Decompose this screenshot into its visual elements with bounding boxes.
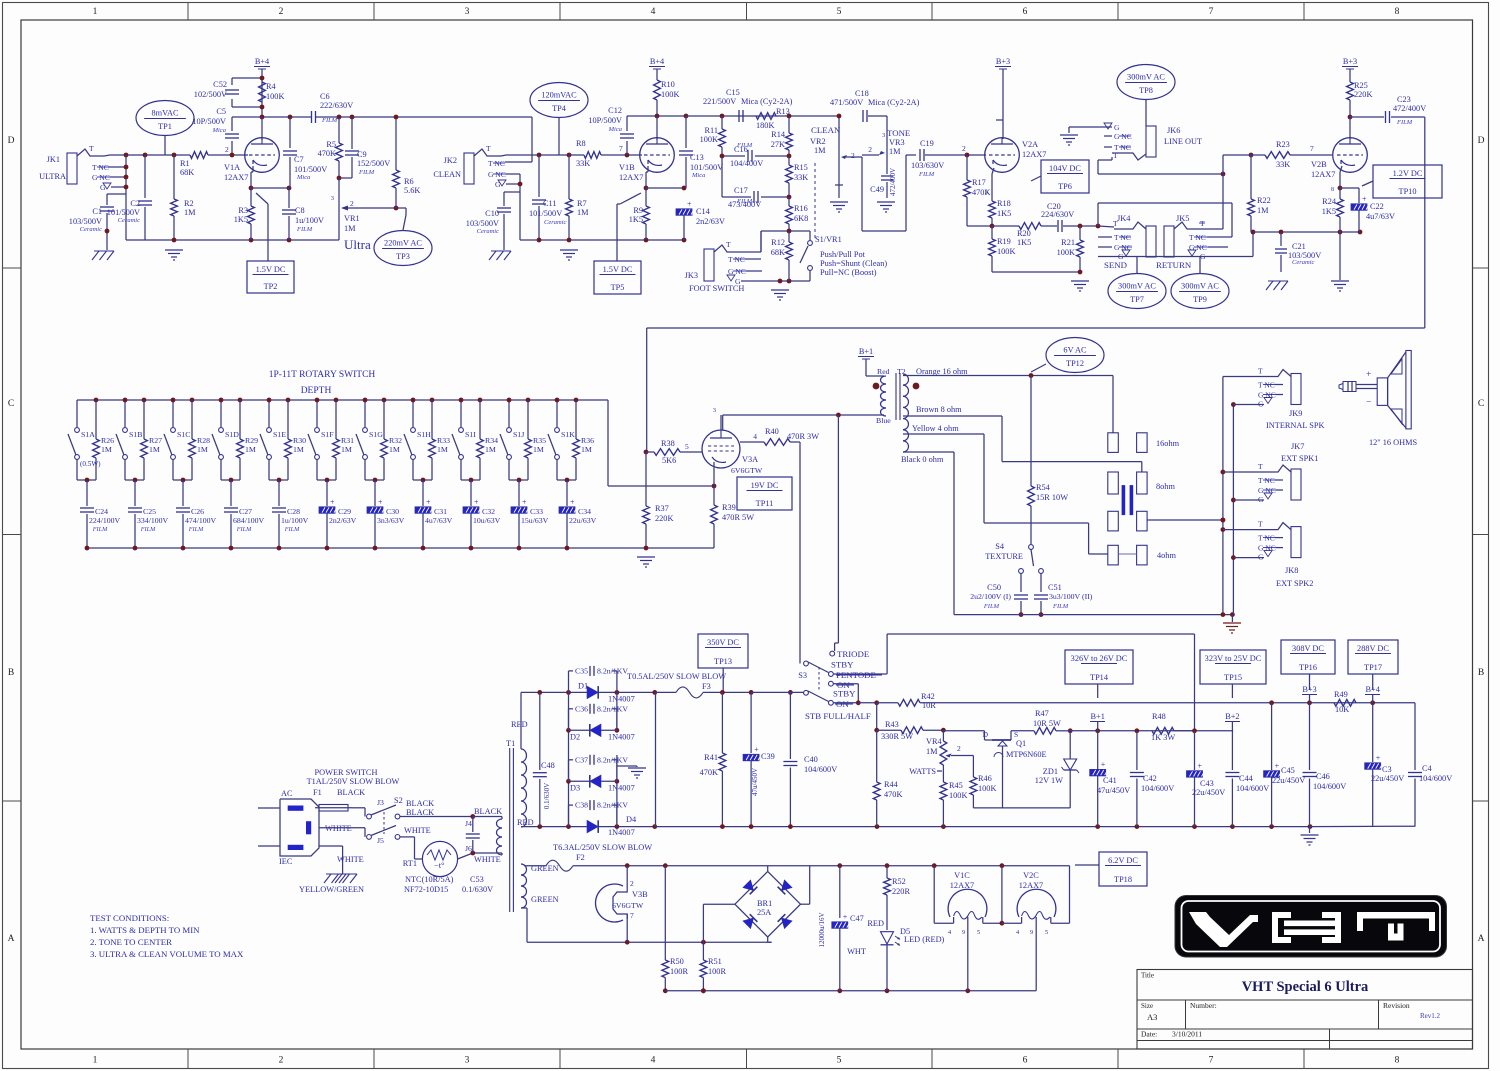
svg-text:R10: R10	[661, 80, 675, 89]
svg-text:R19: R19	[997, 237, 1011, 246]
wire heater ground bus	[665, 988, 1036, 993]
svg-text:B+1: B+1	[859, 347, 873, 356]
thermistor RT1	[400, 837, 458, 894]
svg-text:V1C: V1C	[954, 871, 970, 880]
svg-text:R23: R23	[1276, 140, 1290, 149]
shorting bars 8 ohm	[1122, 485, 1134, 515]
resistor R28	[189, 398, 210, 480]
capacitor C6	[312, 92, 354, 124]
svg-text:12AX7: 12AX7	[224, 173, 248, 182]
svg-text:2: 2	[630, 879, 634, 888]
wire plate node V2B	[1348, 115, 1384, 139]
svg-text:1: 1	[93, 1056, 98, 1066]
switch blade cathode bypass	[256, 193, 268, 261]
capacitor C48	[533, 692, 555, 826]
svg-text:C44: C44	[1239, 774, 1254, 783]
svg-text:T NC: T NC	[1189, 233, 1206, 242]
svg-text:224/100V: 224/100V	[89, 516, 121, 525]
resistor R41	[700, 692, 726, 826]
potentiometer VR3 tone	[868, 128, 910, 172]
wire rectifier right rail upper	[615, 692, 620, 732]
svg-text:Ceramic: Ceramic	[544, 219, 567, 226]
capacitor C49	[870, 168, 897, 198]
jack JK2	[433, 144, 520, 189]
svg-text:Revision: Revision	[1383, 1001, 1410, 1010]
resistor R50	[662, 866, 689, 993]
resistor R47	[1011, 709, 1069, 734]
resistor R16	[786, 197, 809, 231]
svg-text:C23: C23	[1397, 95, 1411, 104]
svg-text:B+4: B+4	[255, 57, 270, 66]
svg-text:C40: C40	[804, 755, 818, 764]
svg-text:104/600V: 104/600V	[1141, 784, 1174, 793]
svg-text:JK3: JK3	[685, 271, 698, 280]
capacitor C9	[345, 117, 390, 178]
svg-text:C4: C4	[1422, 764, 1433, 773]
svg-text:EXT SPK2: EXT SPK2	[1276, 579, 1313, 588]
svg-text:EXT SPK1: EXT SPK1	[1281, 454, 1318, 463]
capacitor C7	[283, 117, 327, 188]
svg-text:3n3/63V: 3n3/63V	[377, 516, 405, 525]
svg-text:8: 8	[1331, 187, 1334, 193]
svg-text:C3: C3	[1382, 765, 1392, 774]
svg-text:C47: C47	[850, 914, 864, 923]
resistor R32	[381, 398, 402, 480]
svg-text:220mV AC: 220mV AC	[384, 239, 422, 248]
impedance block 16 ohm	[1108, 433, 1180, 453]
svg-text:1N4007: 1N4007	[608, 732, 635, 741]
capacitor C50	[970, 574, 1028, 617]
label RETURN	[1156, 260, 1192, 270]
svg-text:FOOT SWITCH: FOOT SWITCH	[689, 284, 744, 293]
wire cathode V2B	[1331, 166, 1342, 193]
svg-text:12V 1W: 12V 1W	[1035, 776, 1063, 785]
svg-text:5: 5	[837, 1056, 842, 1066]
svg-text:4: 4	[651, 1056, 656, 1066]
svg-text:1K5: 1K5	[629, 215, 643, 224]
svg-text:C33: C33	[530, 507, 543, 516]
svg-text:103/630V: 103/630V	[911, 161, 944, 170]
svg-text:0.1/630V: 0.1/630V	[462, 885, 493, 894]
svg-text:TP10: TP10	[1399, 187, 1417, 196]
test point TP4	[530, 83, 588, 156]
power B+1 node (supply)	[1090, 712, 1105, 731]
wire V3B pins	[626, 866, 628, 943]
svg-text:1M: 1M	[926, 747, 938, 756]
svg-text:2u2/100V (I): 2u2/100V (I)	[970, 592, 1011, 601]
svg-text:R47: R47	[1035, 709, 1049, 718]
svg-text:68K: 68K	[180, 168, 194, 177]
test point TP2	[247, 261, 294, 293]
svg-text:1.5V DC: 1.5V DC	[256, 265, 286, 274]
svg-text:104/400V: 104/400V	[730, 159, 763, 168]
diode D2	[569, 729, 617, 731]
resistor R19	[989, 226, 1016, 272]
svg-text:S1A: S1A	[81, 430, 95, 439]
wire texture ground bus	[954, 612, 1235, 617]
ground symbol foot switch	[771, 290, 789, 300]
LED D5	[847, 919, 944, 991]
svg-text:R48: R48	[1152, 712, 1166, 721]
svg-text:6V AC: 6V AC	[1063, 346, 1087, 355]
svg-text:LINE OUT: LINE OUT	[1164, 137, 1202, 146]
svg-text:+: +	[1362, 195, 1367, 204]
svg-text:T NC: T NC	[1114, 233, 1131, 242]
svg-text:Black 0 ohm: Black 0 ohm	[901, 455, 944, 464]
svg-text:TP16: TP16	[1299, 663, 1317, 672]
svg-text:C50: C50	[987, 583, 1001, 592]
svg-text:JK6: JK6	[1167, 126, 1180, 135]
power B+3 node (supply)	[1302, 685, 1317, 703]
ground symbol JK6	[1060, 127, 1078, 145]
svg-text:12AX7: 12AX7	[1022, 150, 1046, 159]
svg-text:C26: C26	[191, 507, 204, 516]
wire cell join G	[365, 478, 384, 483]
wire heater bus top	[625, 863, 1070, 868]
svg-text:TONE: TONE	[887, 128, 910, 138]
capacitor C33	[511, 480, 549, 550]
jack JK6 line out	[1069, 123, 1202, 160]
wire OT primary bottom to plate	[723, 413, 884, 430]
svg-text:R16: R16	[794, 204, 808, 213]
potentiometer VR1	[331, 178, 360, 235]
capacitor C11	[529, 155, 567, 240]
svg-text:7: 7	[1310, 144, 1314, 153]
fuse F2	[524, 843, 652, 873]
resistor R1	[180, 152, 208, 177]
label red bottom	[517, 818, 534, 827]
svg-text:R24: R24	[1322, 197, 1337, 206]
svg-text:+: +	[843, 913, 848, 922]
svg-text:3: 3	[985, 189, 988, 196]
power B+4 node (supply)	[1365, 685, 1381, 703]
svg-text:S3: S3	[798, 671, 807, 680]
test point TP1	[136, 101, 194, 156]
svg-text:220K: 220K	[1354, 90, 1372, 99]
svg-text:472/400V: 472/400V	[1393, 104, 1426, 113]
svg-text:1K5: 1K5	[234, 215, 248, 224]
svg-text:2: 2	[868, 145, 872, 154]
svg-text:TEST CONDITIONS:: TEST CONDITIONS:	[90, 913, 169, 923]
svg-text:C42: C42	[1143, 774, 1157, 783]
svg-text:POWER SWITCH: POWER SWITCH	[315, 768, 378, 777]
ground symbol PSU	[1301, 826, 1319, 845]
svg-text:16ohm: 16ohm	[1156, 439, 1180, 448]
svg-text:+: +	[1366, 370, 1371, 380]
svg-text:R17: R17	[972, 178, 986, 187]
wire V1B plate to tone stack	[686, 114, 836, 119]
svg-text:R11: R11	[704, 126, 718, 135]
svg-text:1: 1	[93, 7, 98, 17]
svg-text:D1: D1	[578, 681, 588, 690]
svg-text:V3B: V3B	[632, 890, 648, 899]
svg-text:R15: R15	[794, 163, 808, 172]
chassis ground under C10	[489, 251, 511, 260]
chassis ground C21	[1266, 281, 1288, 290]
capacitor C15	[703, 88, 793, 122]
switch S1H	[404, 398, 431, 480]
svg-text:FILM: FILM	[140, 526, 156, 533]
svg-text:T1AL/250V SLOW BLOW: T1AL/250V SLOW BLOW	[307, 777, 400, 786]
wire rectifier left rail	[566, 692, 571, 826]
svg-text:102/500V: 102/500V	[194, 90, 227, 99]
resistor R46	[970, 756, 996, 808]
svg-text:Ceramic: Ceramic	[1292, 259, 1315, 266]
switch S1K	[548, 398, 575, 480]
svg-text:5: 5	[977, 929, 980, 936]
svg-text:3u3/100V (II): 3u3/100V (II)	[1049, 592, 1093, 601]
svg-text:C17: C17	[734, 186, 748, 195]
phase dot secondary	[913, 383, 920, 390]
resistor R10	[654, 80, 680, 116]
wire foot switch ground	[741, 279, 810, 284]
svg-text:R39: R39	[722, 503, 736, 512]
svg-text:S1I: S1I	[465, 430, 476, 439]
switch S1E	[260, 398, 286, 480]
svg-text:C39: C39	[761, 752, 775, 761]
svg-text:B+4: B+4	[650, 57, 665, 66]
svg-text:WHITE: WHITE	[337, 855, 364, 864]
svg-text:1M: 1M	[197, 445, 208, 454]
svg-text:3: 3	[882, 132, 885, 139]
ground symbol stage2	[560, 250, 578, 260]
wire C23 output	[647, 117, 1425, 452]
svg-text:C53: C53	[470, 875, 484, 884]
svg-text:27K: 27K	[771, 140, 785, 149]
capacitor C35	[569, 666, 629, 693]
svg-text:10P/500V: 10P/500V	[588, 116, 622, 125]
svg-text:B+3: B+3	[1302, 685, 1316, 694]
svg-text:STB FULL/HALF: STB FULL/HALF	[805, 711, 871, 721]
svg-text:C22: C22	[1370, 202, 1384, 211]
svg-text:Yellow 4 ohm: Yellow 4 ohm	[912, 424, 959, 433]
capacitor C28	[272, 480, 309, 550]
svg-text:Q1: Q1	[1016, 739, 1026, 748]
svg-text:12AX7: 12AX7	[1019, 881, 1043, 890]
resistor R8	[576, 139, 601, 168]
wire C18 to VR3	[868, 116, 887, 140]
resistor R38	[646, 439, 702, 465]
svg-text:JK8: JK8	[1285, 566, 1298, 575]
svg-text:Blue: Blue	[876, 416, 891, 425]
capacitor C22	[1340, 188, 1395, 232]
svg-text:VHT Special 6 Ultra: VHT Special 6 Ultra	[1242, 979, 1369, 995]
wire R5 C9 join	[337, 176, 352, 181]
svg-text:C31: C31	[434, 507, 447, 516]
svg-text:TP4: TP4	[552, 104, 567, 113]
svg-text:1M: 1M	[577, 208, 589, 217]
svg-text:+: +	[426, 498, 431, 507]
svg-text:CLEAN: CLEAN	[811, 125, 841, 135]
wire V3A cathode	[713, 462, 715, 486]
svg-text:2: 2	[279, 1056, 284, 1066]
resistor R11	[700, 116, 726, 156]
svg-text:FILM: FILM	[1052, 603, 1069, 610]
svg-text:9: 9	[962, 929, 965, 936]
switch S2 pole J5	[319, 826, 431, 846]
svg-text:JK7: JK7	[1291, 442, 1304, 451]
svg-text:C9: C9	[357, 150, 367, 159]
power B+2 node	[1225, 712, 1240, 731]
wire main B+ rail	[720, 690, 804, 695]
svg-text:R27: R27	[149, 436, 162, 445]
svg-text:R37: R37	[655, 504, 669, 513]
svg-text:220K: 220K	[655, 514, 673, 523]
svg-text:D: D	[8, 136, 15, 146]
svg-text:2. TONE TO CENTER: 2. TONE TO CENTER	[90, 937, 172, 947]
switch link dashed	[383, 812, 385, 834]
wire 8 ohm tap	[903, 416, 1142, 472]
wire depth top bus	[77, 399, 608, 401]
title block	[1137, 970, 1473, 1050]
jack JK7 ext speaker 1	[1223, 462, 1301, 504]
svg-text:Mica: Mica	[212, 127, 226, 134]
svg-text:300mV AC: 300mV AC	[1118, 282, 1156, 291]
svg-text:T NC: T NC	[1258, 476, 1275, 485]
svg-text:0.1/630V: 0.1/630V	[543, 783, 551, 809]
wire cell join K	[557, 478, 576, 483]
resistor R20	[992, 223, 1041, 247]
wire VR1 bottom	[338, 235, 340, 240]
wire R16 to R12 and foot switch	[761, 229, 808, 252]
svg-text:RETURN: RETURN	[1156, 260, 1192, 270]
svg-text:326V to 26V DC: 326V to 26V DC	[1071, 654, 1128, 663]
svg-text:221/500V: 221/500V	[703, 97, 736, 106]
svg-text:101/500V: 101/500V	[529, 209, 562, 218]
wire V1B plate lead	[656, 116, 658, 140]
svg-text:1M: 1M	[389, 445, 400, 454]
svg-text:R14: R14	[771, 130, 786, 139]
zener ZD1	[1035, 728, 1079, 808]
wire	[232, 78, 262, 117]
switch S1F	[308, 398, 334, 480]
svg-text:222/630V: 222/630V	[320, 101, 353, 110]
svg-text:104/600V: 104/600V	[1236, 784, 1269, 793]
svg-text:3: 3	[331, 195, 334, 202]
svg-text:J3: J3	[377, 798, 384, 807]
svg-text:Mica (Cy2-2A): Mica (Cy2-2A)	[741, 97, 793, 106]
capacitor C44	[1225, 731, 1269, 827]
svg-text:BLACK: BLACK	[406, 799, 434, 808]
wire BR1 connections	[703, 866, 809, 943]
svg-text:B+2: B+2	[1225, 712, 1239, 721]
capacitor C3	[1365, 703, 1405, 827]
resistor R24	[1322, 188, 1344, 232]
svg-text:V2B: V2B	[1311, 160, 1327, 169]
wire pentode throw	[834, 634, 1195, 731]
jack JK4 send	[1098, 214, 1156, 261]
svg-text:12AX7: 12AX7	[1311, 170, 1335, 179]
resistor R21	[1057, 224, 1084, 275]
svg-text:R29: R29	[245, 436, 258, 445]
label JK8	[1276, 566, 1313, 588]
svg-text:8.2n/1KV: 8.2n/1KV	[597, 755, 628, 764]
wire speaker ground bus	[1231, 402, 1236, 614]
svg-text:R46: R46	[978, 774, 992, 783]
svg-text:6: 6	[1023, 7, 1028, 17]
svg-text:T: T	[726, 240, 731, 249]
svg-text:S1F: S1F	[321, 430, 334, 439]
wire plate node stage1	[232, 115, 311, 120]
resistor R54	[1028, 376, 1069, 545]
svg-text:152/500V: 152/500V	[357, 159, 390, 168]
svg-text:ULTRA: ULTRA	[39, 172, 66, 181]
svg-text:C25: C25	[143, 507, 156, 516]
svg-text:1M: 1M	[1257, 206, 1269, 215]
wire speaker tip bus	[1221, 377, 1226, 617]
svg-text:224/630V: 224/630V	[1041, 210, 1074, 219]
wire foot switch tip	[741, 231, 761, 252]
svg-text:C28: C28	[287, 507, 300, 516]
svg-text:R5: R5	[326, 140, 336, 149]
svg-text:C46: C46	[1316, 772, 1330, 781]
svg-text:25A: 25A	[757, 908, 771, 917]
svg-text:TP8: TP8	[1139, 86, 1153, 95]
svg-text:47u/450V: 47u/450V	[1097, 786, 1130, 795]
svg-text:TP11: TP11	[756, 499, 774, 508]
svg-text:TP7: TP7	[1130, 295, 1144, 304]
wire R17 R18 join	[967, 224, 994, 229]
svg-text:R12: R12	[771, 238, 785, 247]
svg-text:C24: C24	[95, 507, 108, 516]
resistor R43	[877, 720, 946, 741]
svg-text:33K: 33K	[576, 159, 590, 168]
svg-text:G NC: G NC	[1258, 486, 1276, 495]
svg-text:T: T	[1113, 151, 1118, 160]
wire cathode to C8	[251, 186, 291, 191]
svg-text:1M: 1M	[533, 445, 544, 454]
diode D3	[569, 780, 617, 782]
svg-text:100R: 100R	[708, 967, 726, 976]
svg-text:+: +	[378, 498, 383, 507]
svg-text:C5: C5	[216, 107, 226, 116]
svg-text:22u/450V: 22u/450V	[1192, 788, 1225, 797]
svg-text:Orange 16 ohm: Orange 16 ohm	[916, 367, 968, 376]
svg-text:1M: 1M	[485, 445, 496, 454]
svg-text:3: 3	[713, 407, 716, 414]
svg-text:2: 2	[279, 7, 284, 17]
svg-text:F3: F3	[702, 682, 711, 691]
svg-text:C19: C19	[920, 139, 934, 148]
svg-text:C30: C30	[386, 507, 399, 516]
wire grid stage1	[208, 145, 248, 157]
chassis ground under C1	[92, 251, 114, 260]
svg-text:+: +	[1376, 754, 1381, 763]
test conditions text	[90, 913, 244, 959]
svg-text:5: 5	[837, 7, 842, 17]
svg-text:7: 7	[1209, 1056, 1214, 1066]
svg-text:R8: R8	[576, 139, 586, 148]
test point TP11	[737, 477, 792, 510]
svg-text:INTERNAL SPK: INTERNAL SPK	[1266, 421, 1324, 430]
triode V1A	[224, 137, 279, 182]
svg-text:T NC: T NC	[1258, 534, 1275, 543]
wire cathode to C14	[646, 186, 686, 191]
svg-text:470R 3W: 470R 3W	[787, 432, 819, 441]
svg-text:R13: R13	[776, 107, 790, 116]
capacitor C18	[830, 89, 920, 122]
capacitor C23	[1386, 95, 1427, 126]
wire cell join C	[173, 478, 192, 483]
svg-text:1M: 1M	[889, 147, 901, 156]
power B+1 node (OT)	[858, 347, 884, 376]
svg-text:STBY: STBY	[831, 660, 854, 670]
svg-text:1N4007: 1N4007	[608, 828, 635, 837]
svg-text:Mica: Mica	[296, 174, 310, 181]
capacitor C47	[818, 866, 864, 991]
svg-text:V1B: V1B	[619, 163, 635, 172]
svg-text:R30: R30	[293, 436, 306, 445]
